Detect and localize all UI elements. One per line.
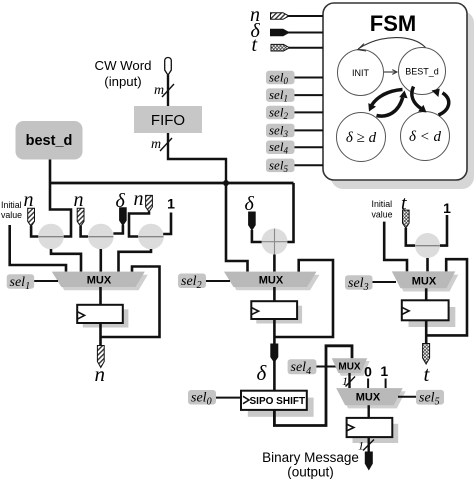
svg-text:best_d: best_d xyxy=(26,133,73,149)
register R2 shadow xyxy=(256,306,302,324)
FSM block U1 xyxy=(323,3,467,180)
arrow INIT to BEST_d xyxy=(384,70,397,75)
wire initial value to mux M1 xyxy=(10,225,66,272)
wire mux M4 to register R4 xyxy=(368,405,370,418)
connector binary output (black) xyxy=(365,452,372,470)
connector n2 xyxy=(77,208,84,226)
mux M3 (small) xyxy=(332,358,367,373)
wire sel1 to mux M1 xyxy=(34,280,58,282)
svg-text:BEST_d: BEST_d xyxy=(405,67,439,77)
wire n to FSM xyxy=(289,15,324,17)
svg-text:δ: δ xyxy=(257,361,268,385)
wire node N1 to mux M1 xyxy=(51,249,81,272)
wire mux M3 to mux M4 xyxy=(348,373,350,388)
wire mux M1 to register R1 xyxy=(99,287,102,305)
wire register R1 output xyxy=(99,323,102,346)
label sel2 xyxy=(178,274,206,292)
svg-text:SIPO SHIFT: SIPO SHIFT xyxy=(250,396,306,407)
wire node N2 to mux M1 xyxy=(100,249,103,272)
label sel4 (FSM) xyxy=(266,139,323,156)
connector delta2 (black) xyxy=(249,212,256,230)
svg-text:MUX: MUX xyxy=(412,276,437,288)
state delta>=d xyxy=(337,113,386,162)
merge node N1 xyxy=(38,224,64,250)
wire register R3 output xyxy=(425,320,428,343)
wire delta to SIPO xyxy=(273,361,276,391)
mux M2 shadow xyxy=(227,275,320,290)
mux M5 xyxy=(392,271,456,288)
svg-text:Binary Message: Binary Message xyxy=(262,450,359,465)
wire sel5 to mux M4 xyxy=(398,396,416,398)
svg-text:n: n xyxy=(134,188,144,210)
svg-text:n: n xyxy=(74,189,84,211)
svg-text:FSM: FSM xyxy=(370,11,416,36)
state delta<d xyxy=(401,112,450,161)
wire n1 to node N1 xyxy=(31,226,39,237)
FSM input n connector xyxy=(271,13,290,20)
svg-text:MUX: MUX xyxy=(356,392,381,404)
mux M4 xyxy=(336,388,403,405)
wire sel0 to SIPO xyxy=(216,397,241,399)
wire CW to FIFO xyxy=(167,75,169,106)
wire 1 to mux M4 xyxy=(385,379,387,389)
svg-text:MUX: MUX xyxy=(87,275,112,287)
wire register R4 output xyxy=(368,437,370,452)
mux M5 shadow xyxy=(395,275,459,292)
connector t output xyxy=(423,344,430,365)
wire FIFO to bus xyxy=(168,133,226,182)
register R3 shadow xyxy=(409,307,456,327)
svg-text:m: m xyxy=(151,137,161,152)
state INIT xyxy=(338,50,384,96)
connector delta1 (black) xyxy=(120,208,127,226)
svg-text:CW Word: CW Word xyxy=(95,58,152,73)
state BEST_d xyxy=(399,48,446,95)
label sel4 xyxy=(288,359,317,377)
svg-text:FIFO: FIFO xyxy=(151,112,185,129)
wire sel3 to mux M5 xyxy=(373,281,397,283)
svg-text:Initial: Initial xyxy=(1,200,22,210)
arrow BEST_d to delta<d xyxy=(412,87,427,113)
svg-text:1: 1 xyxy=(167,196,175,212)
svg-text:1: 1 xyxy=(443,200,451,216)
svg-text:value: value xyxy=(372,210,393,220)
connector n output xyxy=(97,346,104,368)
svg-text:Initial: Initial xyxy=(372,199,393,209)
mux M3 shadow xyxy=(334,361,369,376)
wire feedback R2 to mux M2 xyxy=(274,260,333,337)
wire 1 to node N4 xyxy=(440,215,448,246)
junction dot FIFO/bus xyxy=(223,180,229,186)
mux M1 xyxy=(52,272,145,287)
wire delta1 to node N2 xyxy=(113,225,123,234)
FSM input t connector xyxy=(271,44,290,51)
svg-text:(input): (input) xyxy=(104,74,141,89)
wire 1 to node N3 xyxy=(163,213,171,235)
connector delta R2 output (black) xyxy=(271,344,278,362)
wire bus to adder (right drop) xyxy=(287,183,294,242)
wire register R2 output xyxy=(273,319,276,344)
svg-text:n: n xyxy=(24,189,34,211)
SIPO shift register U3 xyxy=(241,391,307,410)
wire delta to FSM xyxy=(289,32,324,34)
wire node N3 to mux M1 xyxy=(119,249,152,272)
arrow BEST_d to INIT xyxy=(358,38,426,51)
mux M1 shadow xyxy=(55,275,148,290)
wire feedback R3 to mux M5 xyxy=(426,259,467,335)
label sel2 (FSM) xyxy=(266,104,323,121)
mux M2 xyxy=(224,272,317,287)
wire n3 to node N3 xyxy=(129,212,149,237)
svg-text:INIT: INIT xyxy=(352,68,370,78)
svg-text:(output): (output) xyxy=(287,465,334,479)
register R2 xyxy=(251,301,297,319)
label sel3 xyxy=(345,275,373,293)
connector n1 xyxy=(28,208,35,226)
wire SIPO loop to mux M3 xyxy=(274,346,352,426)
svg-text:1: 1 xyxy=(380,363,388,379)
wire sel2 to mux M2 xyxy=(206,280,230,282)
merge node N3 xyxy=(138,224,164,250)
svg-text:MUX: MUX xyxy=(259,275,284,287)
wire sel4 to mux M3 xyxy=(316,366,337,368)
wire initial value to mux M5 xyxy=(384,222,407,272)
svg-text:1: 1 xyxy=(342,374,348,388)
wire node N4 to mux M5 xyxy=(426,258,429,271)
FSM block shadow xyxy=(331,11,474,189)
svg-text:δ ≥ d: δ ≥ d xyxy=(346,130,377,146)
merge node N2 xyxy=(88,224,114,250)
svg-text:δ < d: δ < d xyxy=(409,129,442,145)
register R4 xyxy=(347,418,393,437)
wire t to FSM xyxy=(289,47,323,49)
wire feedback R1 to mux M1 xyxy=(101,267,160,338)
wire 0 to mux M4 xyxy=(367,379,369,389)
register R4 shadow xyxy=(353,424,399,443)
label sel5 (FSM) xyxy=(266,157,323,174)
wire t to node N4 xyxy=(406,228,416,246)
mux M4 shadow xyxy=(339,391,406,408)
svg-text:0: 0 xyxy=(364,364,372,380)
wire n2 to node N2 xyxy=(81,226,89,237)
svg-text:n: n xyxy=(95,362,106,386)
wire best_d down through bus xyxy=(50,160,71,237)
wire mux M5 to register R3 xyxy=(425,288,428,300)
svg-text:value: value xyxy=(1,210,22,220)
wire mux M2 to register R2 xyxy=(273,287,276,301)
label sel5 xyxy=(416,390,444,408)
register R1 shadow xyxy=(83,309,129,327)
svg-text:MUX: MUX xyxy=(338,362,361,373)
wire delta2 to adder A1 xyxy=(252,230,262,242)
connector t input xyxy=(403,210,410,228)
register best_d xyxy=(16,121,83,160)
arrow delta>=d to BEST_d xyxy=(377,91,408,117)
label sel1 xyxy=(7,274,35,292)
label sel1 (FSM) xyxy=(266,87,323,104)
connector n3 xyxy=(146,195,153,211)
label sel0 (FSM) xyxy=(266,70,323,87)
register R3 xyxy=(402,300,449,320)
wire adder A1 to mux M2 xyxy=(273,255,276,272)
bus wire xyxy=(50,182,294,185)
merge node N4 xyxy=(415,233,440,258)
arrow delta<d to BEST_d xyxy=(432,89,449,115)
svg-text:t: t xyxy=(252,34,258,56)
SIPO shadow xyxy=(248,398,314,417)
FIFO U2 xyxy=(134,106,202,133)
wire bus to mux M2 (left drop) xyxy=(226,183,248,272)
register R1 xyxy=(77,305,123,323)
adder A1 xyxy=(262,229,288,255)
FSM input delta connector xyxy=(271,29,290,36)
arrow BEST_d to delta>=d xyxy=(368,90,402,112)
label sel0 xyxy=(188,390,216,408)
connector CW input xyxy=(165,57,172,75)
label sel3 (FSM) xyxy=(266,122,323,139)
